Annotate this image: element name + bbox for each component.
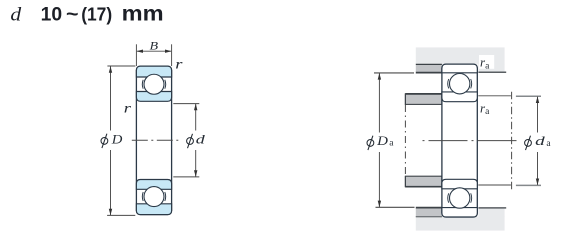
label phi D: [97, 131, 125, 151]
shaft cut edge solid top: [404, 93, 406, 105]
bottom housing right shoulder edge: [478, 207, 506, 209]
inner ring top band: [136, 92, 171, 102]
right bottom ball: [450, 188, 470, 208]
phiDa extension top: [374, 72, 414, 74]
centerline right figure: [423, 140, 521, 142]
right outer ring bottom band: [442, 208, 477, 217]
bottom housing bore line: [416, 216, 442, 218]
shaft top shoulder surface edge: [405, 93, 442, 95]
svg-text:D: D: [376, 133, 389, 148]
bearing outline silhouette: [136, 66, 171, 214]
B extension line left: [135, 44, 137, 66]
B dimension line: [137, 50, 171, 52]
housing right extension: [478, 64, 504, 72]
housing right shoulder edge: [478, 71, 506, 73]
svg-text:d: d: [196, 131, 206, 146]
right top ball: [450, 74, 470, 94]
da chain line: [511, 92, 513, 190]
housing top block: [416, 47, 505, 64]
phida extension top gray: [516, 95, 541, 97]
svg-text:r: r: [124, 100, 132, 115]
bottom groove arcs: [141, 192, 144, 201]
shaft top shoulder bar: [405, 94, 442, 104]
phiD extension bottom: [107, 214, 135, 216]
phiD dimension line: [110, 66, 112, 215]
bottom ball: [144, 187, 164, 207]
phid extension top: [173, 103, 199, 105]
phiDa extension bottom: [376, 206, 415, 208]
shaft cut edge solid bottom: [404, 176, 406, 187]
top ball: [144, 74, 164, 94]
bottom housing left shoulder: [416, 208, 442, 216]
phiD extension top: [107, 65, 135, 67]
phid extension bottom: [173, 176, 199, 178]
centerline left figure: [132, 139, 179, 141]
phiDa dimension line: [378, 73, 380, 207]
shaft bottom shoulder surface edge: [405, 186, 442, 188]
right bottom groove arcs: [447, 193, 450, 202]
svg-text:~: ~: [66, 4, 79, 25]
inner ring bottom band: [136, 180, 171, 190]
ra label box top: [479, 55, 494, 69]
outer ring bottom band: [136, 204, 171, 215]
bottom housing block: [416, 216, 505, 230]
right bearing outline silhouette: [442, 64, 477, 217]
top groove arcs: [141, 80, 144, 89]
svg-text:B: B: [150, 40, 159, 52]
svg-text:(17): (17): [81, 3, 112, 24]
svg-text:ra: ra: [480, 100, 490, 117]
label phi d: [184, 131, 208, 151]
svg-text:mm: mm: [122, 2, 164, 25]
phida dimension line: [537, 97, 539, 185]
right inner ring top band: [442, 92, 477, 102]
svg-text:D: D: [111, 131, 123, 146]
right top groove arcs: [447, 79, 450, 88]
phida extension bottom dark: [478, 184, 511, 186]
shaft cut edge dash-dot middle: [404, 105, 406, 176]
label phi da: [520, 133, 557, 153]
outer ring top band: [136, 66, 171, 77]
phida extension bottom gray: [516, 184, 541, 186]
B extension line right: [171, 44, 173, 66]
housing bore line left of bearing: [416, 63, 442, 65]
housing left shoulder abutment edge: [416, 72, 442, 74]
right outer ring top band: [442, 64, 477, 73]
svg-text:d: d: [10, 4, 21, 25]
bottom housing right extension: [478, 208, 504, 217]
housing left shoulder: [416, 65, 442, 72]
svg-text:10: 10: [41, 4, 63, 25]
phida extension top dark: [478, 95, 511, 97]
right inner ring bottom band: [442, 179, 477, 189]
svg-text:d: d: [535, 133, 545, 148]
bottom housing left shoulder edge: [416, 207, 442, 209]
svg-text:r: r: [175, 57, 183, 72]
phid dimension line: [195, 104, 197, 177]
label phi Da: [361, 133, 398, 153]
shaft bottom shoulder bar: [405, 176, 442, 186]
